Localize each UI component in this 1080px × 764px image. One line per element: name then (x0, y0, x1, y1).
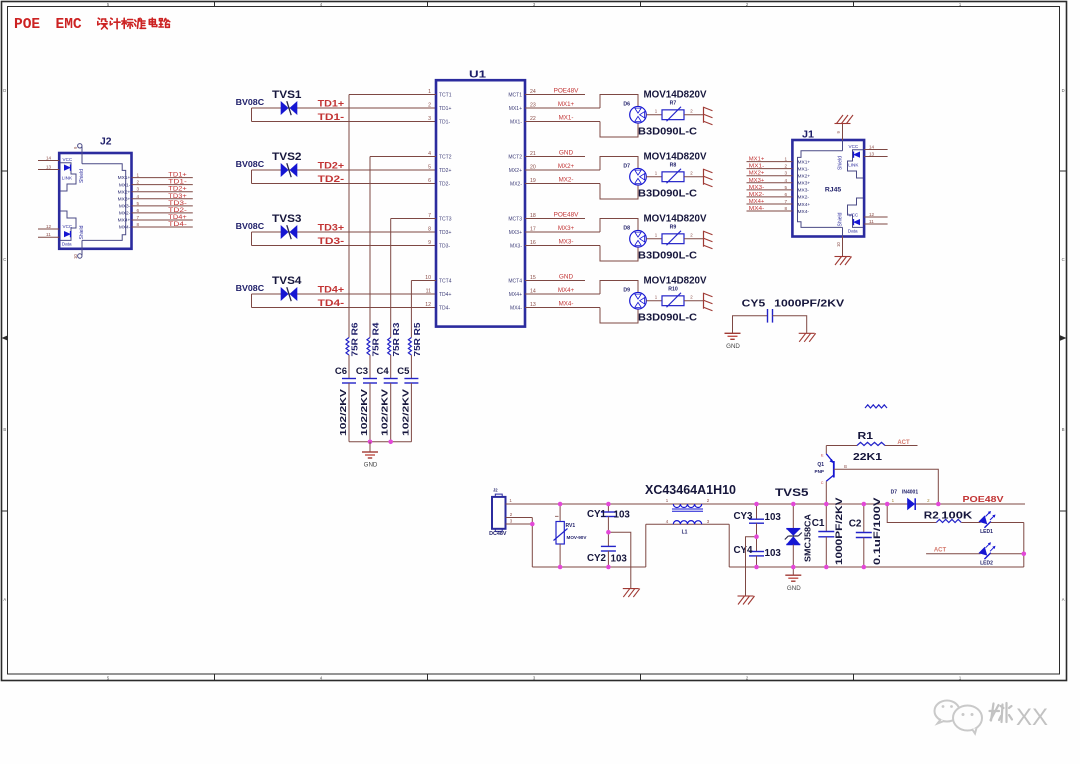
svg-text:MX2+: MX2+ (798, 174, 811, 180)
svg-text:MX2+: MX2+ (118, 189, 131, 195)
svg-text:LINK: LINK (848, 163, 859, 168)
svg-text:4: 4 (137, 194, 140, 199)
svg-text:10: 10 (836, 242, 841, 247)
watermark wechat icon (935, 701, 983, 734)
J1 pin 2 wire, net MX1- (747, 164, 810, 173)
svg-text:13: 13 (869, 151, 875, 156)
gas discharge tube D6 (B3D090L-C) (623, 88, 706, 137)
wire CY3/CY4 midpoint to chassis (746, 534, 759, 595)
U1 right pin 15 (MCT4) (508, 274, 585, 285)
svg-text:ACT: ACT (897, 440, 910, 446)
svg-text:75R R4: 75R R4 (372, 322, 381, 357)
svg-text:GND: GND (559, 274, 574, 281)
svg-text:MCT4: MCT4 (508, 278, 522, 284)
resistor R3 75R (388, 322, 402, 357)
svg-text:6: 6 (428, 178, 431, 184)
svg-text:B3D090L-C: B3D090L-C (638, 312, 697, 324)
svg-text:R7: R7 (670, 100, 677, 106)
resistor R1 22K1 (826, 430, 917, 463)
J2 pin 1 wire, net TD1+ (118, 173, 193, 182)
svg-text:MX2+: MX2+ (749, 171, 765, 177)
resistor R6 75R (346, 322, 360, 357)
J1 pin 8 wire, net MX4- (747, 206, 810, 215)
svg-text:MX3+: MX3+ (798, 181, 811, 187)
svg-text:MX2-: MX2- (559, 177, 574, 184)
svg-text:VCC: VCC (849, 144, 859, 149)
chassis ground at R10 (704, 293, 713, 311)
U1 right pin 16 (MX3-) (510, 239, 600, 250)
svg-text:5: 5 (784, 185, 787, 190)
svg-text:MOV14D820V: MOV14D820V (644, 88, 707, 100)
capacitor C5 102/2KV (397, 355, 418, 442)
svg-text:11: 11 (426, 289, 431, 295)
svg-text:12: 12 (46, 224, 52, 229)
LED LED1 (978, 511, 1024, 535)
J1 pin 11 wire (864, 219, 888, 224)
svg-text:GND: GND (787, 585, 801, 592)
svg-text:B: B (1062, 427, 1065, 432)
svg-text:2: 2 (137, 180, 140, 185)
capacitor C6 102/2KV (335, 355, 356, 442)
wire LED1 to LED2 junction (1023, 523, 1025, 554)
svg-text:MX2-: MX2- (798, 195, 810, 201)
svg-text:6: 6 (784, 192, 787, 197)
J1 pin 5 wire, net MX3- (747, 185, 810, 194)
svg-text:MOV-90V: MOV-90V (567, 535, 588, 540)
wire bottom return rail (left segment) (532, 566, 646, 568)
svg-text:GND: GND (559, 150, 574, 157)
svg-text:MX3+: MX3+ (558, 225, 575, 232)
svg-text:Shield: Shield (79, 225, 85, 239)
svg-text:D8: D8 (623, 225, 630, 231)
svg-text:CY5: CY5 (742, 298, 766, 310)
svg-text:RV1: RV1 (566, 523, 576, 529)
resistor R2 100K (887, 504, 978, 523)
svg-text:MX3+: MX3+ (749, 178, 765, 184)
svg-text:LED2: LED2 (980, 560, 993, 566)
svg-text:BV08C: BV08C (236, 160, 265, 169)
capacitor CY4 103 (733, 537, 781, 567)
J1 pin 7 wire, net MX4+ (747, 199, 811, 208)
svg-text:LINK: LINK (62, 176, 73, 181)
svg-text:MX1-: MX1- (119, 182, 131, 188)
svg-text:C3: C3 (356, 366, 368, 377)
svg-text:CY4: CY4 (733, 545, 753, 556)
wire Q1 base to rail (834, 469, 939, 504)
varistor R8 (646, 162, 703, 183)
svg-text:POE48V: POE48V (554, 212, 580, 219)
capacitor C2 0.1uF/100V (849, 497, 883, 567)
svg-text:MX1-: MX1- (559, 115, 574, 122)
svg-text:R10: R10 (668, 286, 678, 292)
svg-text:VCC: VCC (849, 213, 859, 218)
svg-text:TD3-: TD3- (168, 201, 187, 207)
svg-text:MX4-: MX4- (119, 225, 131, 231)
J2 pin 10 stub (73, 249, 82, 259)
svg-text:MX1+: MX1+ (558, 101, 575, 108)
varistor R10 (646, 286, 703, 307)
svg-text:TD4-: TD4- (168, 222, 187, 228)
svg-text:TCT2: TCT2 (439, 154, 452, 160)
svg-text:MX1-: MX1- (510, 119, 522, 125)
svg-text:TCT4: TCT4 (439, 278, 452, 284)
svg-text:12: 12 (425, 302, 431, 308)
J2 pin 13 wire (38, 164, 59, 169)
svg-text:CY1: CY1 (587, 509, 607, 520)
svg-text:TD4+: TD4+ (439, 292, 451, 298)
wire return rail riser to LED junction (1022, 552, 1027, 568)
svg-text:B3D090L-C: B3D090L-C (638, 250, 697, 262)
varistor R7 (646, 100, 703, 121)
svg-text:D6: D6 (623, 101, 630, 107)
svg-text:TCT1: TCT1 (439, 92, 452, 98)
wire bracket MX4 pair to D9 (600, 281, 638, 324)
capacitor C1 1000PF/2KV (812, 497, 845, 567)
svg-text:2: 2 (784, 164, 787, 169)
IC U1 (436, 70, 525, 327)
diode D7 IN4001 (891, 489, 930, 510)
svg-text:3: 3 (784, 171, 787, 176)
svg-text:R9: R9 (670, 224, 677, 230)
capacitor CY1 103 (587, 504, 630, 532)
svg-text:TD2-: TD2- (168, 208, 187, 214)
svg-text:TD2-: TD2- (318, 174, 345, 184)
TVS diode TVS5 SMCJ58CA (775, 487, 813, 567)
svg-text:5: 5 (137, 201, 140, 206)
svg-text:GND: GND (726, 343, 740, 350)
svg-text:VCC: VCC (63, 224, 73, 229)
svg-text:XC43464A1H10: XC43464A1H10 (645, 483, 736, 497)
svg-text:MX2+: MX2+ (558, 163, 575, 170)
svg-text:POE48V: POE48V (963, 494, 1004, 504)
bottom rail of termination network (349, 440, 411, 445)
U1 right pin 22 (MX1-) (510, 115, 600, 126)
svg-text:TD3+: TD3+ (439, 230, 451, 236)
svg-text:MX1+: MX1+ (749, 157, 765, 163)
wire bracket MX1 pair to D6 (600, 95, 638, 138)
svg-text:Shield: Shield (838, 212, 844, 226)
svg-text:103: 103 (611, 554, 628, 565)
wire CY1/CY2 midpoint to chassis (606, 530, 631, 589)
svg-text:4: 4 (784, 178, 787, 183)
U1 left pin 10 (TCT4) (411, 275, 451, 284)
svg-text:1: 1 (137, 173, 140, 178)
svg-text:MX3+: MX3+ (509, 230, 522, 236)
svg-text:TD3+: TD3+ (318, 223, 345, 233)
U1 left pin 7 (TCT3) (391, 213, 452, 222)
svg-text:GND: GND (364, 462, 378, 469)
chassis ground at R7 (704, 107, 713, 125)
svg-text:Data: Data (848, 228, 858, 233)
svg-text:12: 12 (869, 212, 875, 217)
svg-text:MX4-: MX4- (510, 305, 522, 311)
svg-text:D9: D9 (623, 287, 630, 293)
wire bottom return rail (right segment) (729, 566, 1024, 568)
svg-text:MX2+: MX2+ (509, 168, 522, 174)
svg-text:R2: R2 (924, 510, 939, 522)
capacitor C4 102/2KV (377, 355, 398, 442)
watermark text (990, 703, 1049, 731)
connector J1 (RJ45 jack) (792, 129, 864, 237)
svg-text:MCT2: MCT2 (508, 154, 522, 160)
J2 pin 2 wire, net TD1- (119, 180, 193, 189)
svg-text:102/2KV: 102/2KV (381, 388, 390, 436)
U1 left pin 4 (TCT2) (370, 151, 452, 160)
svg-text:7: 7 (784, 199, 787, 204)
svg-text:MX4+: MX4+ (749, 199, 765, 205)
J2 pin 8 wire, net TD4- (119, 222, 193, 231)
svg-text:C: C (1062, 257, 1065, 262)
connector J2 (RJ45 jack) (59, 136, 131, 249)
svg-text:5: 5 (428, 165, 431, 171)
svg-text:MX3-: MX3- (749, 185, 765, 191)
svg-text:DC48V: DC48V (489, 531, 507, 537)
svg-text:14: 14 (869, 144, 875, 149)
svg-text:TD4+: TD4+ (318, 285, 345, 295)
svg-text:MX3-: MX3- (798, 188, 810, 194)
svg-text:1: 1 (784, 157, 787, 162)
svg-text:13: 13 (46, 164, 52, 169)
varistor RV1 MOV-90V (554, 504, 588, 567)
svg-text:MX4+: MX4+ (118, 218, 131, 224)
U1 left pin 12 (TD4-) (425, 302, 450, 311)
svg-text:PNP: PNP (815, 469, 824, 474)
U1 left pin 8 (TD3+) (428, 227, 451, 236)
svg-text:1000PF/2KV: 1000PF/2KV (774, 298, 844, 310)
resistor R4 75R (367, 322, 381, 357)
TVS diode TVS3 (BV08C) with TD3 pair wires (236, 213, 436, 246)
svg-text:75R R5: 75R R5 (413, 322, 422, 357)
J1 pin 10 wire to chassis ground (835, 237, 852, 266)
title: POE EMC design standard circuit (14, 17, 170, 33)
svg-text:8: 8 (428, 227, 431, 233)
svg-text:C5: C5 (397, 366, 410, 377)
svg-text:J2: J2 (100, 136, 112, 148)
U1 right pin 14 (MX4+) (509, 287, 600, 298)
svg-text:Data: Data (62, 241, 72, 246)
svg-text:D7: D7 (623, 163, 630, 169)
GND symbol below TVS5 (785, 567, 801, 592)
svg-text:EMC: EMC (56, 17, 82, 33)
svg-text:9: 9 (428, 240, 431, 246)
svg-text:8: 8 (137, 222, 140, 227)
transistor Q1 PNP (815, 446, 848, 505)
svg-text:B3D090L-C: B3D090L-C (638, 188, 697, 200)
svg-text:L1: L1 (682, 530, 688, 536)
svg-text:C2: C2 (849, 519, 862, 530)
capacitor CY3 103 (733, 504, 781, 537)
svg-text:MX4+: MX4+ (509, 292, 522, 298)
svg-text:POE48V: POE48V (554, 88, 580, 95)
svg-text:C: C (3, 257, 6, 262)
svg-text:TD1+: TD1+ (318, 99, 345, 109)
svg-text:B: B (844, 464, 847, 469)
J1 pin 12 wire (864, 212, 888, 217)
svg-text:102/2KV: 102/2KV (339, 388, 348, 436)
wire L1 bottom winding risers (646, 524, 729, 567)
svg-text:3: 3 (137, 187, 140, 192)
J2 pin 5 wire, net TD3- (119, 201, 193, 210)
J1 pin 6 wire, net MX2- (747, 192, 810, 201)
wire J2 pins 2,3 to return rail (506, 518, 535, 568)
gas discharge tube D8 (B3D090L-C) (623, 212, 706, 261)
U1 right pin 19 (MX2-) (510, 177, 600, 188)
svg-text:103: 103 (765, 548, 782, 559)
J2 pin 3 wire, net TD2+ (118, 187, 193, 196)
U1 right pin 20 (MX2+) (509, 163, 600, 174)
U1 right pin 23 (MX1+) (509, 101, 600, 112)
U1 right pin 13 (MX4-) (510, 301, 600, 312)
svg-text:TVS3: TVS3 (272, 213, 302, 225)
svg-text:MX1-: MX1- (749, 164, 765, 170)
svg-text:8: 8 (784, 206, 787, 211)
svg-text:TD2-: TD2- (439, 181, 450, 187)
U1 left pin 5 (TD2+) (428, 165, 451, 174)
svg-text:TD3-: TD3- (318, 236, 345, 246)
svg-text:MX4-: MX4- (559, 301, 574, 308)
J1 pin 1 wire, net MX1+ (747, 157, 811, 166)
J2 pin 6 wire, net TD2- (119, 208, 193, 217)
J2 pin 14 wire (38, 155, 59, 160)
svg-text:MX4+: MX4+ (558, 287, 575, 294)
svg-text:TD2+: TD2+ (318, 161, 345, 171)
svg-text:TD1-: TD1- (439, 119, 450, 125)
svg-text:R8: R8 (670, 162, 677, 168)
svg-text:TD1+: TD1+ (439, 106, 451, 112)
svg-text:MX4+: MX4+ (798, 202, 811, 208)
GND symbol of termination network (362, 442, 378, 469)
capacitor CY2 103 (587, 532, 627, 567)
svg-text:MOV14D820V: MOV14D820V (644, 150, 707, 162)
svg-text:TD1-: TD1- (168, 180, 187, 186)
svg-text:BV08C: BV08C (236, 98, 265, 107)
svg-text:MCT3: MCT3 (508, 216, 522, 222)
svg-text:BV08C: BV08C (236, 284, 265, 293)
chassis ground at CY5 (799, 333, 816, 342)
svg-text:IN4001: IN4001 (902, 489, 918, 495)
svg-text:1000PF/2KV: 1000PF/2KV (834, 497, 845, 565)
resistor R5 75R (408, 322, 422, 357)
svg-text:0.1uF/100V: 0.1uF/100V (872, 497, 883, 565)
U1 left pin 9 (TD3-) (428, 240, 450, 249)
svg-text:MX3-: MX3- (119, 203, 131, 209)
svg-text:MX2-: MX2- (749, 192, 765, 198)
svg-text:D: D (1062, 88, 1065, 93)
svg-text:A: A (1062, 597, 1065, 602)
svg-text:102/2KV: 102/2KV (401, 388, 410, 436)
svg-text:3: 3 (428, 116, 431, 122)
junction dots top rail (558, 502, 941, 507)
svg-text:102/2KV: 102/2KV (360, 388, 369, 436)
connector J2 DC48V power input (489, 488, 513, 537)
GND symbol at CY5 (725, 333, 741, 350)
svg-text:11: 11 (46, 232, 51, 237)
svg-text:A: A (3, 597, 6, 602)
svg-text:103: 103 (614, 510, 631, 521)
svg-text:2: 2 (428, 103, 431, 109)
svg-text:MX1+: MX1+ (798, 159, 811, 165)
svg-text:14: 14 (46, 155, 52, 160)
svg-text:TD4+: TD4+ (168, 215, 187, 221)
svg-text:MX1+: MX1+ (118, 175, 131, 181)
svg-text:MCT1: MCT1 (508, 92, 522, 98)
svg-text:CY2: CY2 (587, 553, 607, 564)
TVS diode TVS1 (BV08C) with TD1 pair wires (236, 89, 436, 122)
U1 left pin 1 (TCT1) (349, 89, 452, 98)
J2 pin 12 wire (38, 224, 59, 229)
svg-text:100K: 100K (941, 510, 973, 522)
svg-text:J2: J2 (493, 488, 498, 493)
svg-text:TD4-: TD4- (318, 298, 345, 308)
svg-text:TCT3: TCT3 (439, 216, 452, 222)
svg-text:75R R6: 75R R6 (351, 322, 360, 357)
svg-text:B3D090L-C: B3D090L-C (638, 126, 697, 138)
wire bracket MX3 pair to D8 (600, 219, 638, 262)
svg-text:C: C (821, 481, 824, 485)
J1 pin 14 wire (864, 144, 888, 149)
svg-text:POE: POE (14, 17, 40, 33)
svg-text:TVS1: TVS1 (272, 89, 302, 101)
TCT bus lines down to termination network (349, 95, 411, 337)
svg-text:RJ45: RJ45 (825, 187, 841, 194)
svg-text:D: D (3, 88, 6, 93)
J2 pin 9 stub (73, 144, 82, 153)
svg-text:TVS4: TVS4 (272, 275, 302, 287)
svg-text:103: 103 (765, 512, 782, 523)
svg-text:MX4-: MX4- (798, 209, 810, 215)
svg-text:C1: C1 (812, 518, 825, 529)
U1 right pin 24 (MCT1) (508, 88, 585, 99)
TVS diode TVS4 (BV08C) with TD4 pair wires (236, 275, 436, 308)
U1 right pin 18 (MCT3) (508, 212, 585, 223)
TVS diode TVS2 (BV08C) with TD2 pair wires (236, 151, 436, 184)
capacitor C3 102/2KV (356, 355, 377, 442)
svg-text:22K1: 22K1 (853, 451, 882, 463)
J1 pin 4 wire, net MX3+ (747, 178, 811, 187)
junction dots return rail (558, 565, 866, 570)
svg-text:VCC: VCC (63, 157, 73, 162)
svg-text:MOV14D820V: MOV14D820V (644, 274, 707, 286)
wire top rail (DC48V+) (506, 503, 1026, 505)
chassis ground below CY2 (623, 589, 640, 598)
J1 pin 9 wire to chassis ground (835, 115, 854, 140)
svg-text:C6: C6 (335, 366, 347, 377)
svg-text:TD3-: TD3- (439, 243, 450, 249)
svg-text:ACT: ACT (934, 547, 947, 553)
svg-text:R1: R1 (858, 430, 874, 442)
svg-text:CY3: CY3 (733, 511, 753, 522)
svg-text:Q1: Q1 (817, 462, 824, 468)
svg-text:U1: U1 (469, 70, 487, 81)
svg-text:TD2+: TD2+ (439, 168, 451, 174)
varistor R9 (646, 224, 703, 245)
U1 left pin 2 (TD1+) (428, 103, 451, 112)
svg-text:BV08C: BV08C (236, 222, 265, 231)
net label POE48V (963, 494, 1004, 504)
J2 pin 7 wire, net TD4+ (118, 215, 193, 224)
U1 right pin 17 (MX3+) (509, 225, 600, 236)
svg-text:MX2-: MX2- (510, 181, 522, 187)
svg-text:MX1+: MX1+ (509, 106, 522, 112)
svg-text:TVS5: TVS5 (775, 487, 809, 499)
svg-text:MX2-: MX2- (119, 211, 131, 217)
svg-text:MX3-: MX3- (559, 239, 574, 246)
J2 pin 11 wire (38, 232, 59, 237)
svg-text:B: B (3, 427, 6, 432)
U1 left pin 11 (TD4+) (426, 289, 452, 298)
svg-text:LED1: LED1 (980, 529, 993, 535)
svg-text:MX3-: MX3- (510, 243, 522, 249)
